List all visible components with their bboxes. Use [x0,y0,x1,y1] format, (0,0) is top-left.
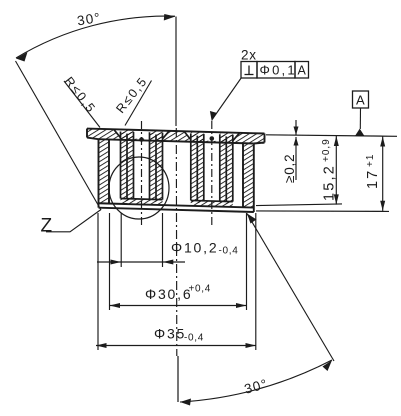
FCF leader [213,78,242,120]
part centerline (vertical) [175,17,177,127]
dim >=0,2 [295,120,297,135]
svg-text:+0,4: +0,4 [189,284,212,295]
datum line (top surface extension right) [266,135,397,137]
right hole bushing walls [191,134,204,203]
svg-text:≥0,2: ≥0,2 [282,154,297,183]
datum A box [353,91,369,108]
left hole bushing walls [121,132,134,201]
right outer wall [243,143,254,208]
part cross-section (skewed group) [87,129,265,213]
dim phi 35 [96,345,256,347]
right hole centerline [211,121,213,226]
datum triangle [355,129,364,136]
dim 17 +1 [256,210,389,213]
left hole centerline [141,121,143,226]
svg-text:+0,9: +0,9 [321,138,332,162]
svg-text:Φ10,2: Φ10,2 [171,240,218,256]
svg-text:-0,4: -0,4 [219,246,239,257]
right hole outlines [184,132,239,202]
detail circle Z [109,157,169,219]
30deg construction line bottom-right [247,214,334,362]
left hole outlines [114,130,169,200]
R<=0,5 leader 2 [125,81,152,126]
left hole bottom [121,198,163,205]
Z leader [46,210,101,232]
dim phi 10,2 [97,261,185,263]
svg-text:A: A [356,93,365,108]
top arc right arrowhead [164,14,176,21]
dim 15,2 +0,9 [256,204,342,206]
svg-text:A: A [298,64,307,78]
flange right tip [264,134,266,143]
flange bottom / cavity ceiling [99,139,254,143]
ext lines below part [97,213,99,350]
top 30deg arc [16,16,175,58]
svg-text:Φ35: Φ35 [154,326,186,342]
part bottom [99,208,254,212]
svg-text:Φ0,1: Φ0,1 [260,63,297,78]
feature control frame [241,62,309,79]
left hole mouth whiteout [114,130,239,142]
30deg construction line top-left [16,61,102,210]
top surface [87,129,265,134]
left hole dot [139,137,144,142]
top arc left arrowhead [16,52,28,62]
left outer wall [99,139,110,204]
outer wall verticals [98,139,100,208]
flange hatched band [87,129,265,144]
svg-text:+1: +1 [365,154,376,167]
R<=0,5 leader 1 [64,81,100,128]
svg-text:2x: 2x [241,48,257,63]
svg-text:Z: Z [41,216,53,237]
flange left tip [86,129,88,138]
right hole dot [210,136,215,141]
bottom 30deg arc [180,360,332,402]
svg-text:Φ30,6: Φ30,6 [145,286,192,302]
svg-text:17: 17 [365,169,381,189]
datum stem [359,108,361,129]
outlines [87,129,265,213]
perpendicularity symbol [245,74,254,76]
interior floor [99,203,254,207]
right hole bottom [191,200,233,207]
dim phi 30,6 [110,305,247,307]
svg-text:15,2: 15,2 [322,164,338,201]
svg-text:-0,4: -0,4 [184,333,204,344]
